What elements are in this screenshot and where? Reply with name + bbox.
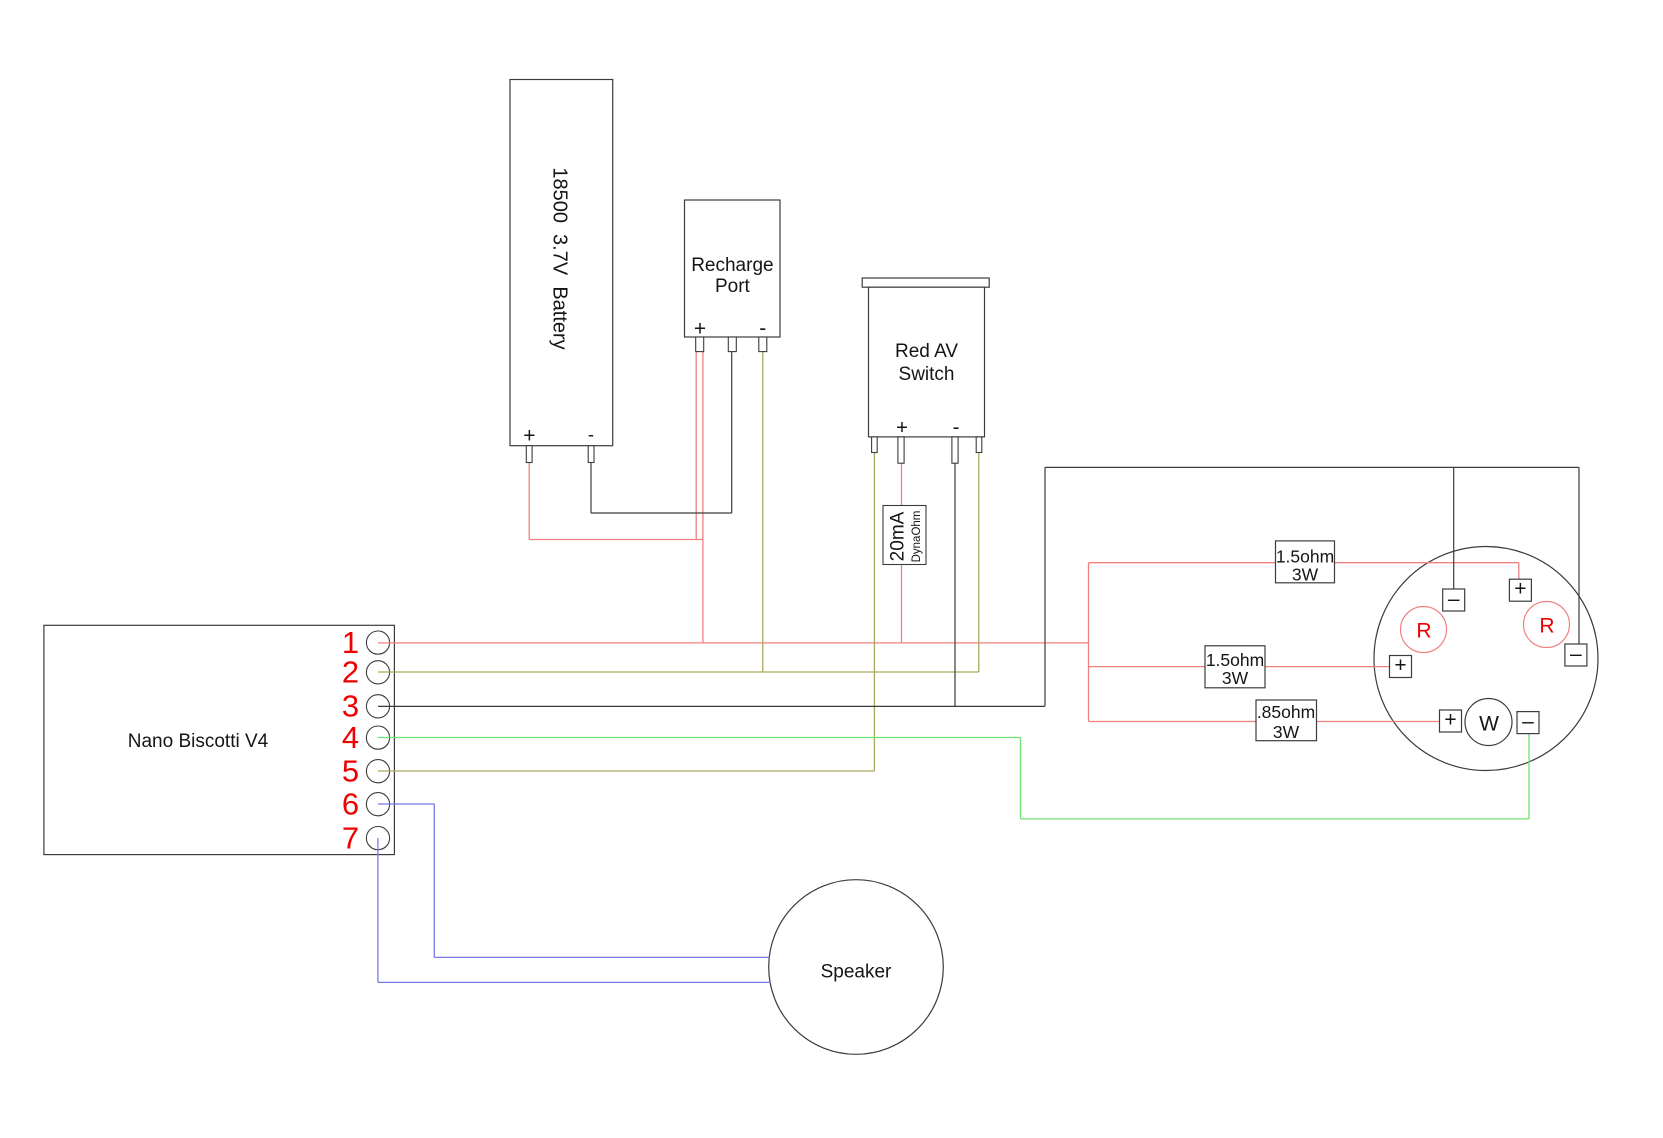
pin 5 pad <box>366 760 389 783</box>
LED head assembly circle <box>1374 547 1598 771</box>
wire: red distribution vertical <box>1088 563 1090 722</box>
svg-text:Recharge: Recharge <box>691 255 773 276</box>
svg-text:+: + <box>1394 654 1406 677</box>
wire: recharge + left drop (red) <box>695 352 697 540</box>
svg-text:+: + <box>896 416 908 439</box>
wire: battery - vertical (black) <box>590 463 592 514</box>
pin 4 pad <box>366 726 389 749</box>
pin 7 pad <box>366 827 389 850</box>
wire: middle red branch to resistor R2 <box>1089 666 1206 668</box>
svg-text:3: 3 <box>342 689 359 724</box>
Red AV terminal pin 1 <box>872 437 878 453</box>
svg-text:18500 3.7V Battery: 18500 3.7V Battery <box>549 167 571 349</box>
white LED + terminal box <box>1440 710 1462 732</box>
recharge + terminal pin <box>696 337 704 352</box>
svg-text:20mA: 20mA <box>888 511 909 561</box>
Nano Biscotti V4 driver board U1 <box>44 625 395 854</box>
wire: pin6 blue stub <box>378 803 434 805</box>
wire: R2 to LED1 + box (red) <box>1265 666 1390 668</box>
red LED2 circle <box>1524 602 1570 648</box>
wire: green vertical down <box>1020 738 1022 819</box>
recharge - terminal pin <box>759 337 767 352</box>
white LED circle <box>1465 699 1512 746</box>
LED1 - terminal box <box>1443 589 1465 611</box>
wire: black loop top horizontal <box>1045 466 1579 468</box>
red LED1 circle <box>1401 607 1447 653</box>
svg-text:6: 6 <box>342 787 359 822</box>
svg-text:Switch: Switch <box>899 364 955 385</box>
Red AV terminal pin 3 (-) <box>952 437 958 463</box>
svg-text:+: + <box>523 425 535 448</box>
wire: recharge middle terminal drop (black) <box>731 352 733 513</box>
svg-text:DynaOhm: DynaOhm <box>911 511 923 563</box>
resistor R1 1.5ohm 3W box <box>1276 541 1335 583</box>
svg-text:3W: 3W <box>1292 565 1319 585</box>
resistor R3 .85ohm 3W box <box>1256 700 1317 741</box>
wire: Red AV switch + to DynaOhm (red) <box>901 463 903 506</box>
LED2 + terminal box <box>1509 579 1531 601</box>
pin 6 pad <box>366 793 389 816</box>
wire: pin7 blue horizontal to speaker <box>378 981 770 983</box>
wire: pin4 green bus horizontal <box>378 737 1021 739</box>
svg-text:2: 2 <box>342 655 359 690</box>
wire: pin3 black bus horizontal <box>378 705 1045 707</box>
Red AV switch S1 lid <box>862 278 989 287</box>
svg-text:+: + <box>1444 708 1456 731</box>
white LED - terminal box <box>1517 712 1539 734</box>
LED2 - terminal box <box>1565 644 1587 666</box>
wire: pin6 blue horizontal to speaker <box>434 956 769 958</box>
battery + terminal pin <box>526 446 532 463</box>
wire: pin7 blue vertical <box>377 838 379 982</box>
svg-text:3W: 3W <box>1222 668 1249 688</box>
wire: battery + vertical (red) <box>528 463 530 540</box>
battery B1 body: 18500 3.7V <box>510 80 613 446</box>
wire: R1 to LED2 + corner (red) <box>1335 562 1519 564</box>
wire: Red AV terminal1 drop to pin5 bus <box>873 453 875 771</box>
svg-text:5: 5 <box>342 754 359 789</box>
svg-text:+: + <box>1514 578 1526 601</box>
svg-text:1.5ohm: 1.5ohm <box>1206 650 1264 670</box>
wire: DynaOhm to red bus (red) <box>901 565 903 643</box>
recharge middle terminal pin <box>728 337 736 352</box>
svg-text:R: R <box>1416 619 1431 642</box>
svg-text:Speaker: Speaker <box>821 962 892 983</box>
wire: Red AV terminal4 drop to olive bus <box>978 453 980 672</box>
wire: drop to LED2 - box (black) <box>1578 467 1580 644</box>
svg-text:Nano Biscotti V4: Nano Biscotti V4 <box>128 731 269 752</box>
wire: pin6 blue vertical <box>433 804 435 957</box>
wire: pin1 red bus horizontal <box>378 642 1089 644</box>
wire: bottom red branch to resistor R3 <box>1089 721 1257 723</box>
recharge port J1 body <box>685 200 781 337</box>
svg-text:Port: Port <box>715 276 751 297</box>
wire: drop to LED1 - box (black) <box>1453 467 1455 589</box>
svg-text:–: – <box>1448 587 1460 610</box>
svg-text:1.5ohm: 1.5ohm <box>1276 547 1334 567</box>
svg-text:–: – <box>1522 710 1534 733</box>
svg-text:-: - <box>588 424 594 445</box>
svg-text:Red AV: Red AV <box>895 341 958 362</box>
wire: top red branch to resistor R1 <box>1089 562 1276 564</box>
Red AV terminal pin 2 (+) <box>898 437 904 463</box>
wire: battery - horizontal (black) <box>591 512 732 514</box>
DynaOhm regulator D1 box <box>883 506 926 565</box>
svg-text:7: 7 <box>342 820 359 855</box>
svg-text:3W: 3W <box>1273 722 1300 742</box>
pin 1 pad <box>366 631 389 654</box>
svg-text:–: – <box>1570 642 1582 665</box>
wire: R3 to white LED + box (red) <box>1317 721 1441 723</box>
Red AV switch S1 body <box>869 287 985 437</box>
wire: recharge - drop to olive bus <box>762 352 764 672</box>
pin 3 pad <box>366 695 389 718</box>
Red AV terminal pin 4 <box>976 437 982 453</box>
wire: drop into LED2 + box (red) <box>1518 563 1520 580</box>
svg-text:W: W <box>1479 713 1499 736</box>
wire: Red AV terminal3 drop to pin3 bus (black) <box>954 463 956 706</box>
wire: black loop left vertical <box>1044 467 1046 706</box>
resistor R2 1.5ohm 3W box <box>1205 646 1265 688</box>
wire: battery + horizontal to recharge + (red) <box>529 539 703 541</box>
battery - terminal pin <box>588 446 594 463</box>
svg-text:-: - <box>953 415 960 438</box>
svg-text:R: R <box>1539 614 1554 637</box>
wire: green rise to white LED - box <box>1528 734 1530 819</box>
wire: pin5 olive bus horizontal <box>378 770 874 772</box>
svg-text:.85ohm: .85ohm <box>1257 702 1315 722</box>
pin 2 pad <box>366 661 389 684</box>
speaker SP1 body <box>769 880 944 1055</box>
svg-text:4: 4 <box>342 720 359 755</box>
wire: green horizontal under LED head <box>1021 818 1530 820</box>
wire: recharge + right drop to red bus (red) <box>702 352 704 643</box>
wire: pin2 olive bus horizontal <box>378 671 979 673</box>
LED1 + terminal box <box>1390 656 1412 678</box>
